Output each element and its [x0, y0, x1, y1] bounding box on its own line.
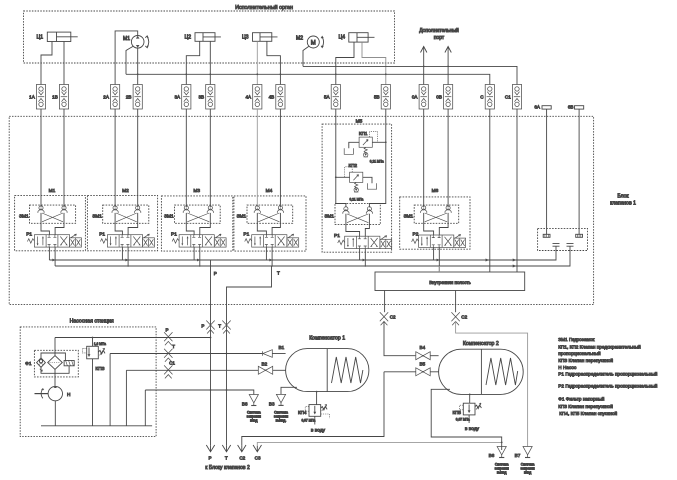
wire С1-cavity	[516, 109, 518, 272]
wire 4А-ЗМ1	[256, 109, 258, 207]
svg-text:Компенсатор 1: Компенсатор 1	[309, 335, 345, 341]
svg-text:Насосная станция: Насосная станция	[70, 319, 114, 325]
wire T line	[110, 353, 262, 355]
wire cavity-С2 left	[384, 291, 386, 313]
svg-text:3В: 3В	[198, 95, 204, 100]
svg-text:В5: В5	[420, 362, 426, 367]
svg-text:КП2: КП2	[349, 163, 358, 168]
svg-text:ЗМ1 Гидрозамок: ЗМ1 Гидрозамок	[558, 337, 595, 342]
svg-text:Р1: Р1	[334, 233, 340, 239]
wire 3В-ЗМ1	[209, 109, 211, 207]
svg-text:0,07 МПа: 0,07 МПа	[456, 417, 470, 421]
svg-text:Ф1 Фильтр напорный: Ф1 Фильтр напорный	[558, 396, 604, 402]
wire С2 out	[238, 372, 384, 461]
box 6А/6В terminator	[538, 228, 588, 250]
svg-text:2А: 2А	[103, 95, 110, 100]
valve Р (pump line)	[164, 328, 172, 346]
plug 6А	[534, 104, 551, 234]
wire Р1(М3)-P	[193, 247, 195, 260]
svg-text:1,6 МПа: 1,6 МПа	[94, 342, 106, 346]
wire Р1(М1)-P	[48, 247, 50, 260]
wire Ц2 port A	[186, 41, 199, 84]
valve Р (P drop)	[201, 321, 214, 334]
wire 1В-ЗМ1	[63, 109, 65, 207]
svg-text:Н Насос: Н Насос	[558, 365, 577, 370]
svg-text:Т: Т	[277, 271, 280, 276]
hydrolock ЗМ1 (М2)	[92, 205, 148, 235]
wire Р2(М6)-P	[433, 247, 435, 260]
svg-text:клапанов 1: клапанов 1	[610, 201, 636, 207]
module М4 box	[234, 188, 306, 251]
svg-text:С1: С1	[169, 361, 175, 366]
wire В3 feed	[281, 387, 297, 394]
valve В5	[384, 362, 439, 376]
svg-text:0,07 МПа: 0,07 МПа	[302, 419, 316, 423]
svg-text:М5: М5	[356, 118, 363, 124]
cylinder Ц1	[37, 32, 78, 41]
valve Р1 (М4)	[243, 231, 298, 247]
wire Ц3 port A	[256, 41, 258, 84]
svg-text:КП1: КП1	[359, 131, 368, 136]
wire 0А-ЗМ1	[423, 109, 425, 207]
plug 6В end	[576, 234, 583, 237]
svg-text:выход: выход	[497, 470, 507, 474]
wire P line	[55, 337, 211, 339]
svg-text:КП4, КП5 Клапан спускной: КП4, КП5 Клапан спускной	[559, 410, 617, 416]
valve Р1 (М5)	[334, 233, 392, 249]
svg-text:Ц2: Ц2	[185, 35, 192, 41]
svg-text:Т: Т	[218, 323, 221, 328]
wire Ц1 port B	[63, 42, 65, 85]
wire Р1(М2)-T	[127, 247, 129, 266]
arrow port 0А	[421, 47, 427, 85]
wire С2-В7	[456, 321, 528, 446]
riser T line	[109, 354, 111, 426]
wire bus y66	[303, 66, 517, 85]
svg-text:КПЗ Клапан перепускной: КПЗ Клапан перепускной	[558, 357, 613, 363]
wire 5А-М5	[336, 109, 346, 207]
valve С1 (pump line)	[164, 361, 175, 379]
svg-text:ЗМ1: ЗМ1	[164, 213, 174, 219]
svg-text:С1: С1	[505, 95, 511, 100]
svg-text:КП1, КП2 Клапан предохраните: КП1, КП2 Клапан предохранительный	[558, 344, 641, 350]
svg-text:5А: 5А	[324, 95, 331, 100]
svg-text:Ф1: Ф1	[25, 361, 32, 367]
wire С3 out	[253, 442, 502, 460]
wire Р1(М3)-T	[199, 247, 201, 266]
svg-text:в воду: в воду	[311, 429, 326, 434]
valve 1А	[29, 85, 45, 110]
svg-text:С2: С2	[239, 456, 245, 461]
wire pump-tank	[54, 401, 56, 426]
compensator 1	[286, 335, 369, 391]
svg-text:0,21 МПа: 0,21 МПа	[350, 198, 364, 202]
svg-text:Р1: Р1	[243, 231, 249, 237]
svg-text:Р2: Р2	[413, 232, 419, 238]
filter Ф1	[25, 338, 78, 387]
hydrolock ЗМ1 (М4)	[237, 205, 293, 235]
svg-text:2В: 2В	[126, 95, 132, 100]
cap T end	[567, 243, 574, 246]
valve С1	[505, 85, 522, 110]
valve Р2 (М6)	[412, 232, 466, 248]
svg-text:5В: 5В	[374, 95, 380, 100]
svg-text:Р: Р	[208, 456, 211, 461]
wire Ц4 port B	[362, 42, 386, 84]
svg-text:Т: Т	[225, 456, 228, 461]
funnel В8	[242, 395, 261, 423]
svg-text:6В: 6В	[568, 104, 574, 109]
wire 5В-М5	[369, 109, 385, 207]
svg-text:М3: М3	[193, 188, 200, 194]
valve Т (pump line)	[164, 344, 175, 362]
arrow T out	[222, 445, 230, 461]
valve Р1 (М1)	[26, 231, 81, 247]
wire T drop	[226, 266, 280, 446]
wire 3А-ЗМ1	[185, 109, 187, 207]
motor М1	[123, 36, 149, 49]
svg-text:1А: 1А	[29, 95, 36, 100]
module М2 box	[87, 188, 157, 251]
relief valve КП2	[335, 163, 372, 202]
riser С1 line	[125, 370, 127, 426]
svg-text:0,21 МПа: 0,21 МПа	[370, 160, 384, 164]
svg-text:Ц1: Ц1	[37, 35, 44, 41]
svg-text:Р2 Гидрораспределитель пропорц: Р2 Гидрораспределитель пропорциональный	[558, 382, 657, 388]
svg-text:ЗМ1: ЗМ1	[237, 213, 247, 219]
relief valve КП5	[452, 403, 481, 432]
riser line4	[144, 390, 146, 426]
module М5 box	[322, 118, 392, 252]
valve Р1 (М2)	[99, 231, 154, 247]
svg-text:КПЗ: КПЗ	[95, 366, 104, 372]
valve 0В	[436, 85, 452, 110]
tank КП1	[344, 148, 353, 154]
wire С-cavity	[489, 109, 491, 272]
valve 2В	[126, 85, 142, 110]
wire 2В-ЗМ1	[137, 109, 139, 207]
cap P end	[553, 243, 560, 246]
svg-text:0В: 0В	[436, 95, 442, 100]
svg-text:Р1: Р1	[99, 231, 105, 237]
pump Н	[35, 386, 72, 400]
svg-text:0А: 0А	[412, 95, 419, 100]
svg-text:М6: М6	[432, 188, 439, 194]
svg-text:ЗМ1: ЗМ1	[19, 213, 29, 219]
check valve В1	[263, 345, 286, 357]
wire С1 line	[126, 369, 258, 371]
box Блок клапанов 1	[9, 116, 636, 304]
svg-text:В6: В6	[489, 453, 495, 458]
cylinder Ц2	[185, 33, 221, 42]
relief valve КП1	[349, 131, 387, 164]
svg-text:Т: Т	[172, 344, 175, 349]
wire М1 port A	[115, 31, 138, 85]
relief valve КП4	[298, 404, 330, 433]
svg-text:вход: вход	[250, 418, 257, 422]
funnel В6	[489, 447, 509, 475]
valve С	[480, 85, 494, 110]
svg-text:С2: С2	[390, 315, 396, 320]
wire Р1(М5)-T	[364, 249, 366, 266]
valve Т (T drop)	[218, 321, 231, 334]
tank КП2	[367, 183, 376, 189]
module М1 box	[15, 188, 86, 251]
svg-text:Дополнительный: Дополнительный	[419, 27, 459, 34]
module М6 box	[400, 188, 470, 249]
svg-text:Р1: Р1	[171, 231, 177, 237]
valve 3А	[174, 85, 190, 110]
svg-text:4А: 4А	[245, 95, 252, 100]
bus P	[49, 246, 556, 261]
wire Р1(М5)-P	[359, 249, 361, 260]
valve Р1 (М3)	[171, 231, 226, 247]
valve 4А	[245, 85, 261, 110]
wire Р2(М6)-T	[438, 247, 440, 272]
svg-text:С2: С2	[461, 315, 467, 320]
box Насосная станция	[20, 319, 156, 437]
svg-text:Внутренняя полость: Внутренняя полость	[429, 280, 471, 285]
svg-text:порт: порт	[434, 35, 445, 41]
svg-text:Блок: Блок	[617, 194, 629, 200]
wire М2 drain	[303, 46, 309, 66]
svg-text:Н: Н	[67, 392, 71, 398]
svg-text:Р: Р	[214, 271, 217, 276]
module М3 box	[161, 188, 232, 251]
cylinder Ц4	[339, 33, 375, 42]
arrow P out	[206, 445, 214, 461]
hydrolock ЗМ1 (М6)	[404, 205, 459, 235]
wire М1 drain	[126, 46, 133, 74]
svg-text:Р1: Р1	[26, 231, 32, 237]
wire comp2-КП5	[469, 394, 471, 404]
compensator 2	[439, 341, 524, 394]
wire comp2 drain	[431, 389, 502, 450]
wire 2А-ЗМ1	[114, 109, 116, 207]
svg-text:М4: М4	[266, 188, 273, 194]
svg-text:КП4: КП4	[298, 410, 307, 415]
svg-text:3А: 3А	[174, 95, 181, 100]
svg-text:В7: В7	[515, 453, 521, 458]
svg-text:М2: М2	[122, 188, 129, 194]
wire Ц1 port A	[41, 42, 52, 85]
wire cavity-С2 right	[455, 291, 457, 313]
svg-text:Р: Р	[165, 328, 168, 333]
tank manifold	[41, 425, 152, 427]
svg-text:М: М	[311, 40, 316, 46]
svg-text:С: С	[480, 95, 484, 100]
svg-text:к Блоку клапанов 2: к Блоку клапанов 2	[205, 465, 250, 471]
wire Т-cavity	[438, 266, 440, 272]
cylinder Ц3	[242, 33, 277, 42]
wire Ц2 port B	[209, 41, 211, 84]
wire Р1(М1)-T	[54, 247, 56, 266]
valve С2 right	[451, 312, 467, 325]
bus T	[55, 246, 570, 267]
wire 4В-ЗМ1	[279, 109, 281, 207]
plug 6В	[568, 104, 584, 234]
valve 1В	[52, 85, 68, 110]
wire 1А-ЗМ1	[40, 109, 42, 207]
svg-text:Ц3: Ц3	[242, 35, 249, 41]
svg-text:М1: М1	[49, 188, 56, 194]
svg-text:4В: 4В	[269, 95, 275, 100]
valve 5В	[374, 85, 390, 110]
hydrolock ЗМ1 (М5)	[324, 204, 380, 237]
hydrolock ЗМ1 (М3)	[164, 205, 220, 235]
svg-text:Компенсатор 2: Компенсатор 2	[463, 341, 499, 347]
wire 0В-ЗМ1	[447, 109, 449, 207]
wire М1 port B	[137, 48, 139, 84]
valve 0А	[412, 85, 428, 110]
svg-text:Р1 Гидрораспределитель пропорц: Р1 Гидрораспределитель пропорциональный	[558, 371, 657, 377]
svg-text:ЗМ1: ЗМ1	[324, 213, 334, 219]
svg-text:Исполнительный орган: Исполнительный орган	[235, 4, 293, 11]
svg-text:В8: В8	[242, 401, 248, 406]
box Внутренняя полость	[375, 272, 525, 291]
hydrolock ЗМ1 (М1)	[19, 205, 75, 235]
svg-text:В2: В2	[262, 362, 268, 367]
funnel В7	[515, 447, 535, 475]
wire Р1(М4)-P	[265, 247, 267, 260]
plug 6А end	[543, 234, 550, 237]
arrow port 0В	[445, 47, 451, 85]
legend	[558, 337, 657, 416]
svg-text:в воду: в воду	[465, 427, 480, 432]
wire comp1-КП4	[316, 391, 318, 405]
svg-text:Р: Р	[201, 323, 204, 328]
motor М2	[296, 36, 324, 49]
svg-text:В1: В1	[279, 345, 285, 350]
valve 2А	[103, 85, 119, 110]
label Дополнительный порт	[419, 27, 459, 41]
valve В2	[258, 362, 285, 375]
wire Ц4 port A	[336, 42, 354, 84]
svg-text:М1: М1	[123, 36, 130, 42]
svg-text:вход: вход	[524, 470, 531, 474]
svg-text:ЗМ1: ЗМ1	[404, 213, 414, 219]
valve В4	[416, 345, 439, 360]
svg-text:В4: В4	[420, 345, 426, 350]
wire P drop	[210, 260, 217, 446]
svg-text:выход.: выход.	[276, 418, 287, 422]
svg-text:С3: С3	[255, 456, 261, 461]
wire Р1(М2)-P	[121, 247, 123, 260]
funnel В3	[269, 394, 288, 422]
svg-text:В3: В3	[269, 401, 275, 406]
valve 4В	[269, 85, 285, 110]
relief valve КП3	[82, 338, 106, 426]
svg-text:КП3 Клапан перепускной: КП3 Клапан перепускной	[558, 403, 613, 409]
wire Р1(М4)-T	[271, 247, 273, 266]
svg-text:Ц4: Ц4	[339, 35, 346, 41]
svg-text:1В: 1В	[52, 95, 58, 100]
valve 5А	[324, 85, 340, 110]
wire bus y74	[126, 73, 490, 84]
wire С2-В4	[384, 321, 415, 355]
svg-text:М2: М2	[296, 36, 303, 42]
wire line4 fill	[145, 389, 254, 394]
svg-text:пропорциональный: пропорциональный	[558, 350, 601, 356]
valve С2 left	[380, 312, 396, 325]
svg-text:ЗМ1: ЗМ1	[92, 213, 102, 219]
svg-text:КП5: КП5	[452, 410, 461, 415]
svg-text:6А: 6А	[534, 104, 541, 109]
wire Ц3 port B	[267, 41, 281, 84]
box Исполнительный орган	[24, 4, 395, 63]
valve 3В	[198, 85, 214, 110]
